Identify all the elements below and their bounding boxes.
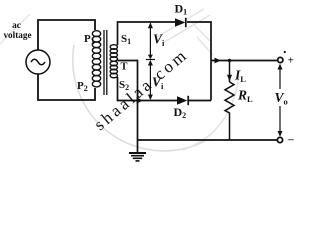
svg-text:shaalaa.com: shaalaa.com: [90, 45, 191, 134]
ac source sine symbol: [31, 59, 45, 65]
plus terminal: [278, 57, 283, 62]
output wire to plus terminal: [211, 60, 278, 62]
transformer secondary coil S1: [110, 45, 117, 62]
annotation Vi upper arrow: [146, 24, 155, 60]
svg-text:RL: RL: [237, 88, 253, 104]
svg-text:S1: S1: [121, 33, 131, 46]
junction dot at RL branch: [228, 59, 231, 62]
watermark swoosh bottom right: [183, 76, 239, 150]
svg-text:T: T: [121, 62, 128, 73]
wire secondary top S1 to D1: [118, 22, 176, 45]
svg-text:voltage: voltage: [3, 30, 31, 40]
svg-text:D2: D2: [174, 105, 187, 120]
svg-text:IL: IL: [234, 68, 246, 84]
transformer core: [103, 30, 105, 95]
watermark diagonal pair right of corner: [192, 23, 210, 41]
wire secondary bottom S2 to D2: [118, 77, 178, 101]
svg-text:Vo: Vo: [275, 90, 288, 106]
dot above plus terminal: [284, 51, 286, 53]
wire primary top: [38, 20, 95, 50]
svg-text:S2: S2: [119, 79, 129, 92]
svg-text:D1: D1: [175, 2, 188, 17]
transformer primary coil P: [92, 31, 100, 87]
current arrow on S2 wire: [137, 97, 143, 104]
watermark diagonal near D1 second: [163, 15, 210, 43]
ac source V1 circle: [26, 50, 50, 74]
svg-text:–: –: [287, 133, 294, 145]
diode D2: [177, 96, 187, 105]
resistor RL zigzag: [225, 82, 234, 140]
transformer secondary coil S2: [110, 61, 117, 78]
svg-text:+: +: [288, 55, 294, 67]
bottom rail: [138, 139, 278, 141]
annotation Vo arrow upper: [279, 66, 281, 89]
current arrow on output wire: [215, 58, 222, 64]
watermark diagonal near voltage label: [0, 14, 30, 48]
diode D1: [175, 18, 185, 27]
wire D1 cathode to right corner: [187, 22, 211, 101]
svg-text:ac: ac: [12, 20, 21, 30]
annotation Vo arrow lower: [279, 106, 281, 135]
wire D2 cathode to right corner: [189, 100, 211, 102]
minus terminal: [277, 137, 282, 142]
wire primary bottom: [38, 74, 95, 100]
watermark circle: [73, 45, 205, 151]
annotation Vi lower arrow: [149, 61, 151, 99]
IL branch wire with arrow: [229, 61, 231, 83]
svg-text:Vi: Vi: [153, 32, 165, 48]
center tap wire to ground: [118, 61, 138, 153]
svg-text:P2: P2: [77, 80, 88, 93]
watermark diagonal near D1: [157, 9, 204, 37]
ground: [129, 153, 146, 161]
